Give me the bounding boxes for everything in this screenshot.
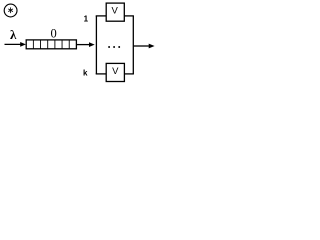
svg-text:V: V xyxy=(112,66,119,77)
svg-text:V: V xyxy=(112,5,119,16)
wire queue to fork arrow xyxy=(76,42,94,47)
svg-text:λ: λ xyxy=(10,27,17,42)
wire stub to server 1 left xyxy=(96,15,107,17)
wire stub from server k right xyxy=(124,73,134,75)
server box k xyxy=(106,63,124,81)
wire stub to server k left xyxy=(96,73,107,75)
svg-text:1: 1 xyxy=(84,14,89,23)
svg-text:k: k xyxy=(83,69,88,78)
node source symbol (circled asterisk) xyxy=(4,4,17,17)
queue buffer (7 cells) xyxy=(26,40,76,49)
wire left fork rail xyxy=(95,16,97,74)
wire departure arrow xyxy=(133,44,154,49)
wire arrival arrow xyxy=(5,42,26,47)
server box 1 xyxy=(106,3,124,21)
wire right join rail xyxy=(132,16,134,74)
wire stub from server 1 right xyxy=(124,15,134,17)
ellipsis dots between servers xyxy=(108,46,120,48)
svg-text:0: 0 xyxy=(50,26,56,40)
